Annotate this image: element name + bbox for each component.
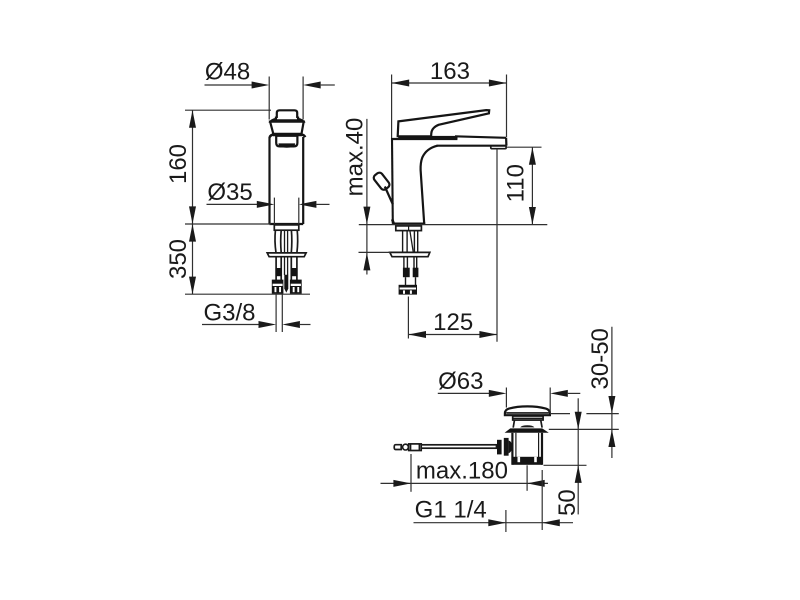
drain pull knob (diagonal lever) (372, 171, 393, 223)
dim 160/350 extension line middle (deck) (185, 223, 271, 225)
side hose nut (399, 285, 417, 295)
dim 125 right extension line (aerator axis) (496, 149, 498, 342)
svg-text:Ø48: Ø48 (205, 59, 250, 86)
dim Ø35 extension lines (273, 198, 275, 225)
dim 50 line and arrows (575, 398, 582, 514)
deck reference line lower (549, 428, 619, 430)
central stud lower (284, 257, 286, 275)
central stud tip (284, 275, 288, 293)
dim Ø48 line and arrows (205, 82, 335, 89)
dim 110 top extension line (507, 146, 542, 148)
aerator housing at spout tip (491, 146, 506, 149)
side ferrule bands (403, 268, 410, 278)
svg-text:Ø63: Ø63 (438, 368, 483, 395)
spout front (end-on) (276, 136, 297, 147)
base gasket (274, 225, 299, 230)
side gasket (396, 226, 422, 231)
body back edge / 163 left extension line (391, 75, 393, 139)
dim G3/8 line and arrows (202, 321, 311, 328)
pull rod collar (409, 444, 422, 451)
waste flange (black) (505, 428, 549, 432)
body right side (302, 137, 304, 224)
aerator arc (278, 143, 295, 147)
spout top edge (455, 136, 506, 138)
cone-to-body right wedge (301, 135, 305, 138)
seat dome bump (520, 425, 534, 427)
spout right edge (505, 138, 507, 146)
body front edge (421, 146, 438, 224)
svg-text:max.180: max.180 (416, 458, 508, 485)
central stud upper (284, 230, 286, 252)
dim G1 1/4 line and arrows (414, 519, 574, 526)
dim 125 line and arrows (408, 331, 497, 338)
right hose upper (290, 230, 293, 252)
right hose ferrule (black band) (291, 268, 298, 276)
cone bottom band (273, 133, 302, 136)
dim max.180 line and arrows (381, 480, 549, 487)
svg-text:max.40: max.40 (341, 118, 368, 197)
left hose nut G3/8 (272, 280, 284, 294)
spout underside (437, 145, 507, 147)
dim G3/8 extension lines (275, 294, 277, 332)
svg-text:Ø35: Ø35 (207, 179, 252, 206)
valve seat bulge (513, 420, 542, 428)
dim 350 arrows (189, 224, 196, 294)
dim Ø48 extension lines (268, 77, 270, 120)
dim Ø63 extension lines (505, 388, 507, 408)
dim 160 line and arrows (189, 110, 196, 294)
washer-level reference line (359, 251, 391, 253)
deck line (side) (359, 224, 548, 226)
svg-text:G3/8: G3/8 (203, 299, 255, 326)
body left side (268, 137, 270, 224)
left hose ferrule (black band) (276, 268, 282, 276)
pivot clevis (497, 438, 512, 456)
dim 110 line and arrows (529, 147, 536, 224)
dim max.40 line and arrows (363, 119, 370, 275)
side mounting washer (390, 252, 430, 256)
dim 163 line and arrows (392, 80, 507, 87)
side shank tubes (403, 231, 418, 253)
dim G1 1/4 extension lines (505, 510, 507, 532)
handle left fillet wedge (270, 119, 277, 123)
dim max.180 extension lines (410, 454, 412, 492)
dim 160/350 extension line bottom (185, 293, 310, 295)
svg-text:30-50: 30-50 (587, 328, 614, 389)
deck reference line upper (30-50) (550, 413, 570, 415)
svg-text:163: 163 (430, 58, 470, 85)
dim 125 left extension line (faucet axis) (407, 297, 409, 339)
cone-to-body left wedge (270, 135, 274, 138)
pull rod end cap (394, 445, 401, 450)
pull rod ball joint (403, 444, 409, 450)
lever (side) (398, 110, 490, 136)
body top line (392, 138, 457, 140)
plug cap (mushroom) (505, 406, 550, 415)
svg-text:G1 1/4: G1 1/4 (415, 497, 487, 524)
left hose upper (275, 230, 276, 252)
handle right fillet wedge (298, 119, 305, 123)
handle cone (skirt) (270, 122, 304, 134)
dim 160/350 extension line top (185, 109, 271, 111)
waste bottom reference line (544, 464, 587, 466)
right hose nut G3/8 (290, 280, 302, 294)
svg-text:50: 50 (554, 489, 581, 516)
dim Ø35 line and arrows (207, 201, 330, 208)
pull rod (421, 445, 496, 448)
left hose lower (275, 257, 277, 280)
svg-text:160: 160 (165, 144, 192, 184)
handle knob (lever end-on) (276, 110, 298, 120)
svg-text:110: 110 (503, 164, 530, 202)
lever/body gap band (398, 136, 457, 139)
body bottom (side) (392, 222, 425, 224)
side rod segment (405, 277, 407, 285)
body bottom (270, 223, 304, 225)
mounting washer (267, 253, 306, 257)
svg-text:350: 350 (165, 239, 192, 279)
side rods below washer (404, 257, 417, 269)
waste body (512, 433, 542, 465)
dim 163 right extension line (506, 75, 508, 138)
svg-text:125: 125 (433, 309, 473, 336)
dim Ø63 line and arrows (438, 390, 581, 397)
dim 30-50 line and arrows (608, 327, 615, 458)
right hose lower (290, 257, 292, 280)
plug neck (513, 415, 543, 420)
